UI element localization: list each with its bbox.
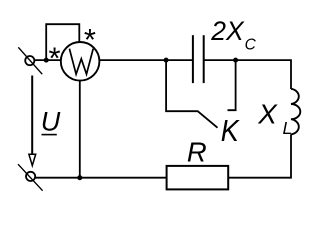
resistor R box bbox=[167, 166, 229, 190]
wire voltage-coil bracket of wattmeter bbox=[46, 24, 79, 60]
node junction dot bottom under wattmeter bbox=[77, 175, 82, 180]
svg-text:*: * bbox=[49, 41, 61, 76]
node junction dot left of capacitor bbox=[164, 58, 169, 63]
node junction dot right of capacitor bbox=[233, 58, 238, 63]
svg-text:U: U bbox=[41, 107, 61, 137]
wire top from terminal to wattmeter bbox=[35, 59, 61, 61]
svg-text:2X: 2X bbox=[210, 16, 245, 46]
capacitor 2XC plates bbox=[193, 35, 204, 83]
svg-text:L: L bbox=[283, 118, 293, 138]
switch K wire left branch and blade bbox=[166, 60, 217, 128]
voltage arrowhead bbox=[29, 154, 36, 165]
wattmeter W body bbox=[61, 42, 100, 81]
voltage arrow line U bbox=[31, 76, 33, 155]
wire from wattmeter to capacitor bbox=[100, 59, 193, 61]
wattmeter letter W bbox=[69, 49, 93, 75]
svg-text:C: C bbox=[245, 36, 257, 53]
inductor XL coil bbox=[291, 89, 300, 135]
node junction dot left of wattmeter bbox=[44, 58, 49, 63]
svg-text:K: K bbox=[221, 114, 240, 148]
svg-text:X: X bbox=[257, 98, 278, 129]
wire from coil down to bottom-right corner and left to resistor bbox=[229, 134, 291, 178]
wire from wattmeter bottom down to bottom wire bbox=[79, 81, 81, 178]
svg-text:*: * bbox=[84, 22, 96, 57]
terminal bottom-left bbox=[18, 164, 43, 191]
wire bottom from resistor to bottom terminal bbox=[35, 177, 166, 179]
svg-text:R: R bbox=[187, 136, 207, 167]
wire from capacitor to top-right corner and down to coil bbox=[205, 60, 292, 89]
terminal top-left bbox=[18, 47, 42, 74]
switch K fixed contact bbox=[228, 60, 236, 110]
